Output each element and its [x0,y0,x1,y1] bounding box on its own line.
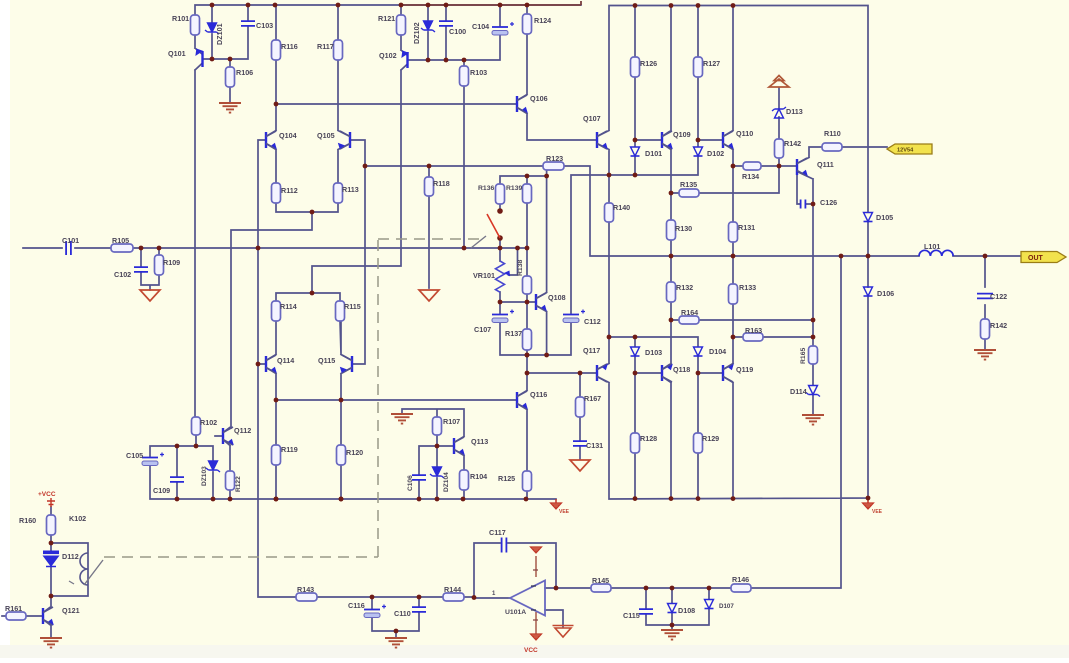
svg-text:Q106: Q106 [530,94,548,103]
svg-text:Q114: Q114 [277,356,294,365]
svg-text:D106: D106 [877,289,894,298]
svg-text:U101A: U101A [505,609,526,616]
svg-text:D108: D108 [678,606,695,615]
svg-text:Q118: Q118 [673,365,690,374]
svg-text:R120: R120 [346,448,363,457]
svg-text:R101: R101 [172,14,189,23]
svg-text:R115: R115 [344,302,361,311]
svg-text:R104: R104 [470,472,487,481]
svg-text:C126: C126 [820,198,837,207]
svg-text:R142: R142 [784,139,801,148]
svg-text:R161: R161 [5,604,22,613]
svg-text:Q110: Q110 [736,129,753,138]
svg-text:DZ101: DZ101 [215,23,224,45]
svg-text:R106: R106 [236,68,253,77]
svg-text:R122: R122 [235,476,242,492]
svg-text:R127: R127 [703,59,720,68]
svg-text:R110: R110 [824,129,841,138]
svg-text:Q116: Q116 [530,390,547,399]
svg-text:C102: C102 [114,270,131,279]
svg-text:VCC: VCC [524,647,538,654]
svg-text:C117: C117 [489,528,506,537]
svg-text:R125: R125 [498,474,515,483]
svg-text:R167: R167 [584,394,601,403]
svg-text:DZ104: DZ104 [443,472,450,492]
svg-text:R126: R126 [640,59,657,68]
svg-text:R113: R113 [342,185,359,194]
svg-text:D107: D107 [719,603,734,610]
svg-text:R133: R133 [739,283,756,292]
svg-text:12V54: 12V54 [897,148,914,154]
svg-text:R142: R142 [990,321,1007,330]
svg-text:R112: R112 [281,186,298,195]
svg-text:R117: R117 [317,42,334,51]
svg-text:R144: R144 [444,585,461,594]
svg-text:R136: R136 [478,185,494,192]
svg-text:C112: C112 [584,317,601,326]
svg-text:R165: R165 [800,348,807,364]
svg-text:C109: C109 [153,486,170,495]
svg-text:C107: C107 [474,325,491,334]
svg-text:R128: R128 [640,434,657,443]
svg-text:Q112: Q112 [234,426,251,435]
svg-text:DZ102: DZ102 [412,22,421,44]
svg-text:R105: R105 [112,236,129,245]
svg-text:R164: R164 [681,308,698,317]
svg-text:R114: R114 [280,302,297,311]
svg-text:R124: R124 [534,16,551,25]
svg-text:R102: R102 [200,418,217,427]
svg-text:R123: R123 [546,154,563,163]
svg-text:R118: R118 [433,179,450,188]
svg-text:C116: C116 [348,601,365,610]
svg-text:Q101: Q101 [168,49,186,58]
svg-text:Q105: Q105 [317,131,335,140]
svg-text:Q107: Q107 [583,114,601,123]
svg-text:K102: K102 [69,514,86,523]
svg-text:R103: R103 [470,68,487,77]
svg-text:R140: R140 [613,203,630,212]
svg-text:R135: R135 [680,180,697,189]
svg-text:Q104: Q104 [279,131,297,140]
svg-text:R145: R145 [592,576,609,585]
svg-text:C106: C106 [407,475,414,491]
svg-text:Q108: Q108 [548,293,566,302]
svg-text:L101: L101 [924,242,940,251]
svg-text:D103: D103 [645,348,662,357]
svg-text:R160: R160 [19,516,36,525]
svg-text:D112: D112 [62,552,79,561]
svg-text:D105: D105 [876,213,893,222]
svg-text:R119: R119 [281,445,298,454]
svg-text:R121: R121 [378,14,395,23]
svg-text:R134: R134 [742,172,759,181]
svg-text:Q121: Q121 [62,606,80,615]
svg-text:VEE: VEE [559,509,570,515]
svg-text:R137: R137 [505,329,522,338]
svg-text:C110: C110 [394,609,411,618]
svg-text:C100: C100 [449,27,466,36]
svg-text:C122: C122 [990,292,1007,301]
svg-text:C101: C101 [62,236,79,245]
svg-text:D114: D114 [790,387,807,396]
svg-text:Q111: Q111 [817,160,834,169]
svg-text:D102: D102 [707,149,724,158]
svg-text:Q115: Q115 [318,356,335,365]
svg-text:Q119: Q119 [736,365,753,374]
svg-text:R116: R116 [281,42,298,51]
svg-text:Q117: Q117 [583,346,600,355]
svg-text:R107: R107 [443,417,460,426]
svg-text:VR101: VR101 [473,271,495,280]
svg-text:R146: R146 [732,575,749,584]
svg-text:R163: R163 [745,326,762,335]
svg-text:R131: R131 [738,223,755,232]
svg-text:Q102: Q102 [379,51,397,60]
svg-text:C131: C131 [586,441,603,450]
svg-text:R139: R139 [506,185,522,192]
svg-text:D113: D113 [786,107,803,116]
svg-text:C103: C103 [256,21,273,30]
svg-text:DZ103: DZ103 [201,466,208,486]
svg-text:R132: R132 [676,283,693,292]
svg-text:Q113: Q113 [471,437,488,446]
svg-text:R138: R138 [517,260,524,276]
svg-text:OUT: OUT [1028,255,1044,262]
svg-text:+VCC: +VCC [38,491,56,498]
svg-text:Q109: Q109 [673,130,691,139]
svg-text:D104: D104 [709,347,726,356]
svg-text:D101: D101 [645,149,662,158]
svg-text:R109: R109 [163,258,180,267]
svg-text:R143: R143 [297,585,314,594]
svg-text:VEE: VEE [872,509,883,515]
svg-text:C115: C115 [623,611,640,620]
svg-text:C104: C104 [472,22,489,31]
svg-text:R130: R130 [675,224,692,233]
svg-text:C105: C105 [126,451,143,460]
svg-text:R129: R129 [702,434,719,443]
